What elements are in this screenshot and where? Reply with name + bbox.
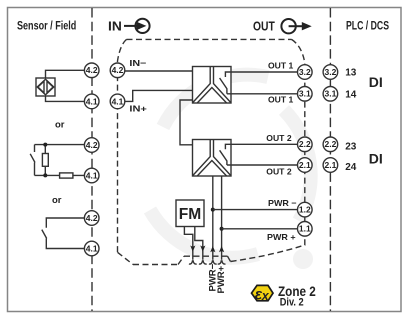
arrow down lead1 bbox=[190, 245, 195, 251]
terminal 2.1 module bbox=[298, 158, 313, 173]
FM box bbox=[176, 200, 204, 227]
node PWR- junction bbox=[211, 208, 215, 212]
isolator U2 bbox=[193, 140, 232, 177]
wire OUT1 b bbox=[227, 93, 298, 95]
wire sensor to 4.2 bbox=[46, 70, 85, 78]
arrow up PWR+ bbox=[219, 246, 224, 252]
wire IN- bbox=[125, 70, 193, 72]
terminal 3.1 PLC bbox=[323, 87, 338, 102]
svg-text:4.2: 4.2 bbox=[86, 140, 98, 150]
terminal 4.1 field row1 bbox=[84, 94, 99, 109]
svg-text:4.1: 4.1 bbox=[86, 243, 98, 253]
svg-text:OUT 1: OUT 1 bbox=[268, 95, 294, 105]
svg-text:13: 13 bbox=[345, 68, 357, 79]
svg-text:DI: DI bbox=[369, 74, 383, 90]
socket fork 2 bbox=[199, 260, 207, 264]
svg-text:FM: FM bbox=[179, 206, 202, 223]
terminal 4.2 field row1 bbox=[84, 63, 99, 78]
svg-text:3.1: 3.1 bbox=[324, 89, 336, 99]
wire PWR+ to 1.1 bbox=[222, 228, 299, 230]
terminal 4.1 field row2 bbox=[84, 168, 99, 183]
wire circuit2 bottom bbox=[35, 174, 85, 176]
terminal circles bbox=[84, 63, 337, 256]
svg-text:2.1: 2.1 bbox=[299, 160, 311, 170]
module dashed outline bbox=[118, 39, 305, 264]
switch S2 bbox=[30, 145, 35, 176]
svg-text:4.2: 4.2 bbox=[86, 213, 98, 223]
isolator U1 bbox=[193, 67, 232, 104]
terminal 4.2 field row3 bbox=[84, 211, 99, 226]
svg-text:24: 24 bbox=[345, 162, 357, 173]
svg-text:or: or bbox=[55, 120, 65, 131]
terminal 2.2 PLC bbox=[323, 137, 338, 152]
terminal 4.1 module bbox=[110, 94, 125, 109]
svg-text:OUT 1: OUT 1 bbox=[268, 60, 294, 70]
svg-text:PWR +: PWR + bbox=[267, 232, 296, 242]
OUT icon bbox=[253, 19, 312, 34]
svg-text:2.2: 2.2 bbox=[299, 139, 311, 149]
svg-text:OUT 2: OUT 2 bbox=[266, 166, 292, 176]
svg-text:4.1: 4.1 bbox=[86, 96, 98, 106]
socket fork 3 bbox=[209, 260, 217, 264]
svg-text:4.1: 4.1 bbox=[86, 170, 98, 180]
svg-text:2.1: 2.1 bbox=[324, 160, 336, 170]
svg-text:IN−: IN− bbox=[129, 58, 146, 68]
svg-text:Sensor / Field: Sensor / Field bbox=[17, 19, 76, 33]
terminal 4.1 field row3 bbox=[84, 241, 99, 256]
wire PWR- vertical bbox=[212, 176, 214, 260]
svg-text:23: 23 bbox=[345, 142, 357, 153]
wire R1 stubs bbox=[44, 145, 46, 176]
wire PWR- to 1.2 bbox=[213, 209, 299, 211]
node junction bottom bbox=[43, 173, 47, 177]
svg-text:3.2: 3.2 bbox=[299, 67, 311, 77]
svg-text:IN: IN bbox=[108, 18, 122, 33]
watermark (faint logo) bbox=[150, 75, 313, 269]
terminal 3.1 module bbox=[298, 87, 313, 102]
resistor R2 (series) bbox=[60, 173, 73, 178]
PLC separator dashed line (right) bbox=[329, 8, 331, 311]
svg-text:1.2: 1.2 bbox=[299, 205, 311, 215]
svg-text:PWR+: PWR+ bbox=[216, 265, 227, 293]
terminal 1.1 module bbox=[298, 222, 313, 237]
Ex hexagon bbox=[252, 285, 274, 303]
svg-text:3.1: 3.1 bbox=[299, 89, 311, 99]
svg-text:DI: DI bbox=[369, 150, 383, 166]
svg-text:1.1: 1.1 bbox=[299, 224, 311, 234]
wire OUT1 a bbox=[231, 71, 298, 73]
NAMUR sensor symbol bbox=[36, 78, 55, 96]
arrow down lead2 bbox=[200, 245, 205, 251]
wire FM lead 2 bbox=[195, 227, 203, 260]
terminal 2.2 module bbox=[298, 137, 313, 152]
node PWR+ junction bbox=[220, 227, 224, 231]
svg-text:4.2: 4.2 bbox=[112, 65, 124, 75]
wire PWR+ vertical bbox=[221, 176, 223, 260]
arrow up PWR- bbox=[210, 246, 215, 252]
svg-text:PLC / DCS: PLC / DCS bbox=[346, 19, 389, 33]
terminal 2.1 PLC bbox=[323, 158, 338, 173]
socket fork 4 bbox=[218, 260, 226, 264]
field separator dashed line (left) bbox=[91, 8, 93, 311]
resistor R1 (parallel) bbox=[42, 154, 48, 167]
wire OUT2 a bbox=[231, 143, 298, 145]
terminal 4.2 module bbox=[110, 63, 125, 78]
svg-text:or: or bbox=[52, 195, 62, 206]
terminal 3.2 PLC bbox=[323, 65, 338, 80]
wire link U1 to U2 bbox=[180, 100, 193, 145]
wire circuit2 top bbox=[35, 144, 85, 146]
wire sensor to 4.1 bbox=[46, 96, 85, 101]
svg-text:OUT 2: OUT 2 bbox=[266, 133, 292, 143]
svg-text:OUT: OUT bbox=[253, 19, 275, 34]
svg-text:4.1: 4.1 bbox=[112, 96, 124, 106]
terminal 1.2 module bbox=[298, 202, 313, 217]
node junction top bbox=[43, 143, 47, 147]
wire IN+ bbox=[125, 90, 193, 101]
svg-text:3.2: 3.2 bbox=[324, 67, 336, 77]
IN icon bbox=[108, 18, 150, 33]
terminal 4.2 field row2 bbox=[84, 138, 99, 153]
wire OUT2 b bbox=[227, 164, 298, 166]
svg-text:2.2: 2.2 bbox=[324, 139, 336, 149]
wire FM lead 1 bbox=[184, 227, 192, 260]
svg-text:Div. 2: Div. 2 bbox=[280, 297, 304, 309]
socket fork 1 bbox=[189, 260, 197, 264]
svg-text:x: x bbox=[261, 289, 270, 303]
svg-text:14: 14 bbox=[345, 90, 357, 101]
terminal 3.2 module bbox=[298, 65, 313, 80]
svg-text:PWR −: PWR − bbox=[268, 198, 297, 208]
svg-text:4.2: 4.2 bbox=[86, 65, 98, 75]
switch S3 bbox=[42, 218, 85, 249]
svg-text:IN+: IN+ bbox=[129, 104, 147, 114]
